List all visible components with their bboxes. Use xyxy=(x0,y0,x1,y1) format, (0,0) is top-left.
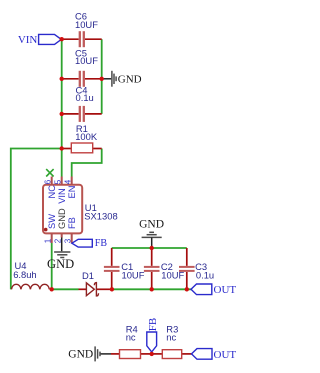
svg-text:10UF: 10UF xyxy=(75,55,98,66)
resistor R1 xyxy=(71,143,92,153)
op-amp U1 SX1308 body xyxy=(43,185,82,234)
junction VIN node xyxy=(60,37,64,41)
ground above C2 xyxy=(139,218,164,248)
wire SW to inductor node xyxy=(52,243,79,289)
svg-text:10UF: 10UF xyxy=(122,270,145,281)
svg-text:GND: GND xyxy=(57,208,67,229)
inductor U4 xyxy=(12,284,50,289)
svg-text:4: 4 xyxy=(64,179,73,184)
svg-text:OUT: OUT xyxy=(214,284,237,296)
svg-text:0.1u: 0.1u xyxy=(76,92,94,103)
svg-text:D1: D1 xyxy=(82,270,94,281)
no-connect X on pin 6 xyxy=(46,169,53,176)
svg-text:FB: FB xyxy=(67,217,77,229)
wire C5 right xyxy=(85,78,102,80)
wire C5 left xyxy=(62,78,79,80)
junction FB bottom node xyxy=(150,352,154,356)
ground bottom left xyxy=(68,346,111,361)
wire EN jog from R1 xyxy=(72,149,102,177)
capacitor C1 xyxy=(104,267,120,271)
net flag FB bottom (vertical) xyxy=(147,332,157,352)
svg-text:nc: nc xyxy=(166,332,176,343)
wire C4 left xyxy=(62,113,79,115)
svg-text:VIN: VIN xyxy=(18,34,38,46)
capacitor C4 xyxy=(80,106,84,122)
capacitor C5 xyxy=(80,71,84,87)
svg-text:6: 6 xyxy=(44,179,53,184)
junction C5 right GND tap xyxy=(100,77,104,81)
svg-text:GND: GND xyxy=(47,257,74,271)
svg-text:100K: 100K xyxy=(75,131,98,142)
U1 pin1 marker dot xyxy=(44,228,48,232)
svg-text:10UF: 10UF xyxy=(161,270,184,281)
ground top right xyxy=(102,71,142,87)
U1 pin 3 stub xyxy=(71,233,73,243)
svg-text:GND: GND xyxy=(68,349,93,361)
wire caps right rail xyxy=(101,39,103,114)
junction C3 bottom xyxy=(185,287,189,291)
wire R1 right lead xyxy=(93,148,102,150)
junction inductor SW node xyxy=(50,287,54,291)
U1 pin 5 stub xyxy=(61,177,63,185)
U1 pin 2 stub xyxy=(61,233,63,237)
junction R1 left xyxy=(60,146,64,150)
junction C4 left xyxy=(60,112,64,116)
svg-text:SW: SW xyxy=(47,214,57,229)
svg-text:FB: FB xyxy=(95,238,108,249)
svg-text:FB: FB xyxy=(147,318,159,331)
diode D1 schottky xyxy=(86,283,98,296)
U1 pin 6 stub xyxy=(51,177,53,185)
capacitor C6 xyxy=(80,31,84,47)
wire GND to R4 xyxy=(111,353,120,355)
capacitor C2 xyxy=(144,267,160,271)
wire C2 leads xyxy=(151,248,153,289)
wire FB node to R3 xyxy=(152,353,163,355)
svg-text:10UF: 10UF xyxy=(75,19,98,30)
svg-text:0.1u: 0.1u xyxy=(196,270,214,281)
ground under U1 xyxy=(47,238,74,272)
wire C4 right xyxy=(85,113,102,115)
port VIN flag xyxy=(39,34,62,44)
net flag FB at U1 pin3 xyxy=(72,239,92,247)
wire VIN to C6 xyxy=(62,38,79,40)
junction C2 bottom xyxy=(150,287,154,291)
svg-text:1: 1 xyxy=(44,238,53,243)
svg-text:6.8uh: 6.8uh xyxy=(13,269,36,280)
port OUT bottom flag xyxy=(192,349,213,360)
svg-text:3: 3 xyxy=(64,238,73,243)
svg-text:NC: NC xyxy=(47,185,57,199)
wire C1 leads xyxy=(111,248,113,289)
svg-text:OUT: OUT xyxy=(214,349,237,361)
svg-text:VIN: VIN xyxy=(57,188,67,204)
wire D1 anode lead xyxy=(79,288,87,290)
wire C3 leads xyxy=(186,248,188,289)
svg-text:GND: GND xyxy=(139,218,164,230)
wire R1 left lead xyxy=(62,148,72,150)
capacitor C3 xyxy=(179,267,195,271)
junction C2 top GND xyxy=(150,246,154,250)
resistor R4 xyxy=(120,350,141,359)
wire D1 cathode to C1 xyxy=(96,288,112,290)
svg-text:5: 5 xyxy=(54,179,63,184)
U1 pin 1 stub xyxy=(51,233,53,243)
wire output caps top xyxy=(112,247,187,249)
wire left loop R1 row to inductor xyxy=(11,149,62,290)
wire VIN rail vertical xyxy=(61,39,63,176)
svg-text:EN: EN xyxy=(67,186,77,199)
wire C6 right xyxy=(85,38,102,40)
wire R4 to FB node xyxy=(141,353,152,355)
svg-text:nc: nc xyxy=(126,332,136,343)
junction C5 left xyxy=(60,77,64,81)
svg-text:GND: GND xyxy=(118,74,142,86)
junction C1 bottom xyxy=(110,287,114,291)
svg-text:SX1308: SX1308 xyxy=(84,211,117,222)
U1 pin 4 stub xyxy=(71,177,73,185)
port OUT top flag xyxy=(191,284,212,295)
wire R3 to OUT xyxy=(182,353,192,355)
wire output bottom xyxy=(112,288,191,290)
resistor R3 xyxy=(162,350,181,359)
